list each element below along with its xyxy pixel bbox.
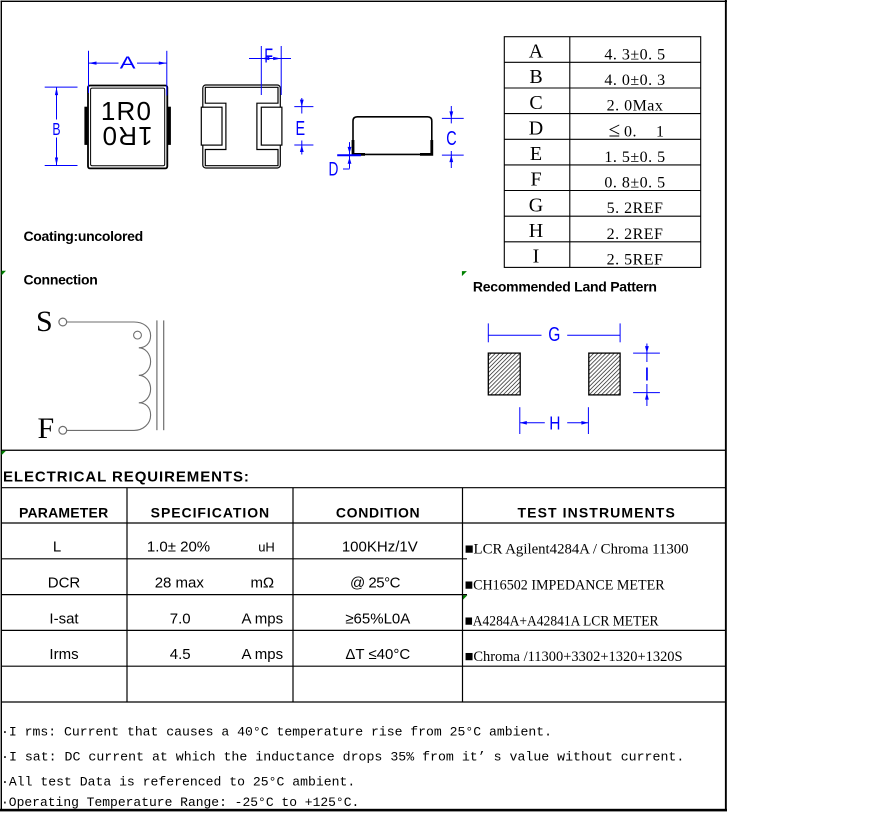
svg-text:5. 2REF: 5. 2REF [607, 200, 664, 217]
svg-text:·I rms: Current that causes a: ·I rms: Current that causes a 40°C tempe… [1, 724, 552, 739]
top view outer body [88, 86, 167, 169]
svg-text:2. 5REF: 2. 5REF [607, 251, 664, 268]
svg-text:L: L [53, 539, 61, 556]
page frame top border [1, 1, 728, 2]
svg-text:7.0: 7.0 [170, 610, 191, 627]
svg-text:·I sat: DC current at which th: ·I sat: DC current at which the inductan… [1, 750, 684, 765]
svg-text:E: E [530, 143, 542, 165]
side view left bottom terminal [353, 140, 365, 154]
core line 2 [163, 320, 165, 430]
svg-text:2. 2REF: 2. 2REF [607, 226, 664, 243]
svg-text:G: G [548, 323, 560, 345]
electrical table headers [19, 505, 676, 521]
svg-text:G: G [529, 194, 543, 216]
page frame right border [725, 0, 727, 811]
svg-text:mΩ: mΩ [250, 575, 274, 592]
svg-text:ELECTRICAL REQUIREMENTS:: ELECTRICAL REQUIREMENTS: [3, 468, 250, 485]
svg-text:A mps: A mps [241, 646, 283, 663]
page frame left border [1, 1, 2, 811]
svg-text:SPECIFICATION: SPECIFICATION [151, 505, 270, 521]
svg-text:DCR: DCR [48, 575, 81, 592]
green marker in electrical table [463, 595, 468, 600]
svg-text:0. 8±0. 5: 0. 8±0. 5 [604, 175, 665, 192]
svg-text:C: C [529, 92, 542, 114]
svg-text:28 max: 28 max [155, 575, 205, 592]
svg-text:uH: uH [258, 540, 275, 555]
top view inner body [91, 88, 165, 166]
svg-text:I: I [644, 363, 649, 384]
bottom view outer outline [203, 85, 280, 168]
bottom view inner I-shape [205, 87, 278, 165]
svg-text:PARAMETER: PARAMETER [19, 505, 108, 521]
svg-text:4. 0±0. 3: 4. 0±0. 3 [604, 72, 665, 89]
svg-text:■Chroma /11300+3302+1320+1320S: ■Chroma /11300+3302+1320+1320S [465, 649, 683, 665]
notes [1, 724, 684, 809]
dimension H [520, 407, 589, 434]
terminal circle S [59, 318, 67, 326]
side view right bottom terminal [420, 140, 432, 154]
svg-text:A: A [529, 41, 544, 63]
svg-text:1. 5±0. 5: 1. 5±0. 5 [604, 149, 665, 166]
dimension D [337, 142, 361, 169]
svg-text:C: C [446, 127, 456, 150]
svg-text:Connection: Connection [24, 272, 98, 288]
green marker left of Connection [2, 271, 7, 276]
svg-text:A: A [120, 53, 136, 72]
dimension E [294, 98, 313, 155]
land pattern left pad [488, 353, 520, 395]
svg-text:4. 3±0. 5: 4. 3±0. 5 [604, 46, 665, 63]
land pattern right pad [589, 353, 620, 395]
svg-text:F: F [530, 169, 541, 191]
bottom thick border [0, 809, 727, 812]
svg-text:H: H [529, 220, 543, 242]
electrical table data [48, 539, 418, 664]
svg-text:·All test Data is referenced t: ·All test Data is referenced to 25°C amb… [1, 775, 355, 790]
svg-text:Coating:uncolored: Coating:uncolored [24, 228, 143, 244]
top view left terminal tab [84, 107, 87, 145]
svg-text:ΔT ≤40°C: ΔT ≤40°C [345, 646, 410, 663]
svg-text:F: F [264, 44, 273, 67]
svg-text:Irms: Irms [49, 646, 78, 663]
svg-text:■CH16502 IMPEDANCE METER: ■CH16502 IMPEDANCE METER [465, 578, 665, 594]
terminal circle F [59, 426, 67, 434]
svg-text:B: B [52, 120, 60, 140]
svg-text:A mps: A mps [241, 610, 283, 627]
dimension C [442, 106, 464, 168]
dimension table letters A-I [529, 41, 544, 268]
svg-text:CONDITION: CONDITION [336, 505, 420, 521]
svg-text:≤0.1: ≤0.1 [609, 117, 665, 141]
svg-text:Recommended Land Pattern: Recommended Land Pattern [473, 278, 657, 294]
svg-text:D: D [529, 118, 543, 140]
svg-text:TEST INSTRUMENTS: TEST INSTRUMENTS [518, 505, 676, 521]
svg-text:2. 0Max: 2. 0Max [607, 98, 664, 115]
svg-text:E: E [295, 117, 305, 140]
svg-text:B: B [529, 66, 542, 88]
dimension F [249, 46, 291, 95]
svg-text:≥65%L0A: ≥65%L0A [345, 610, 410, 627]
dimension A [89, 51, 167, 96]
core line 1 [156, 320, 158, 430]
green marker below separator [2, 451, 6, 455]
side view body [353, 117, 432, 155]
top view right terminal tab [168, 107, 171, 145]
svg-text:·Operating Temperature Range:: ·Operating Temperature Range: -25°C to +… [1, 795, 359, 810]
svg-text:1.0± 20%: 1.0± 20% [147, 539, 210, 556]
svg-text:100KHz/1V: 100KHz/1V [342, 539, 418, 556]
svg-text:D: D [328, 158, 338, 180]
svg-text:I: I [533, 246, 540, 268]
svg-text:1R0: 1R0 [101, 121, 152, 151]
dimension G [488, 323, 620, 342]
dimension B [45, 87, 78, 165]
svg-text:■LCR Agilent4284A / Chroma 11: ■LCR Agilent4284A / Chroma 11300 [465, 542, 689, 558]
bottom view right terminal [261, 107, 282, 145]
dimension I [633, 344, 660, 407]
inductor winding wire [67, 322, 151, 430]
svg-text:I-sat: I-sat [49, 610, 79, 627]
svg-text:■A4284A+A42841A LCR METER: ■A4284A+A42841A LCR METER [465, 613, 659, 629]
winding start dot [134, 331, 142, 339]
green marker left of Recommended Land Pattern [462, 271, 467, 276]
dimension table values [604, 46, 665, 268]
svg-text:4.5: 4.5 [170, 646, 191, 663]
svg-text:F: F [38, 412, 55, 445]
electrical table grid [1, 488, 726, 702]
svg-text:@ 25°C: @ 25°C [350, 575, 401, 592]
svg-text:S: S [36, 305, 53, 338]
svg-text:H: H [549, 413, 560, 434]
section separator line [1, 450, 726, 451]
dimension table grid [504, 37, 700, 268]
bottom view left terminal [201, 107, 222, 145]
test instruments entries [465, 542, 689, 666]
